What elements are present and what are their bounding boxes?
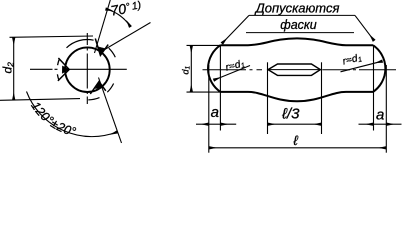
note underline 1 [249, 14, 355, 16]
hexagon flats in middle [268, 64, 320, 75]
120 deg dimension arc [27, 92, 118, 137]
d2 extension line bottom [0, 99, 80, 101]
centerline vertical [86, 33, 88, 104]
svg-text:a: a [211, 104, 219, 121]
svg-text:Допускаются: Допускаются [254, 1, 340, 16]
extension line left corner [219, 46, 221, 131]
svg-text:120°±20°: 120°±20° [28, 99, 77, 139]
part outline bottom edge [220, 92, 373, 101]
70 deg dimension arc [106, 9, 131, 27]
dim l/3 [268, 123, 322, 125]
dim a right: outside arrows [359, 123, 374, 125]
note underline 2 [246, 32, 354, 34]
svg-text:фаски: фаски [280, 18, 317, 32]
label 120deg±20deg on curve [30, 104, 127, 138]
svg-text:70°1): 70°1) [109, 0, 142, 19]
dim a left: outside arrows [196, 123, 209, 125]
dim a right: inner segment [373, 123, 386, 125]
d1 dimension line [190, 45, 192, 92]
svg-text:d2: d2 [0, 62, 15, 74]
d1 extension top [187, 44, 221, 46]
extension line right corner [373, 46, 375, 131]
extension line left tip [208, 65, 210, 153]
centerline horizontal [203, 69, 397, 71]
note leader right [355, 15, 374, 40]
extension line hexagon left [267, 62, 269, 134]
extension line right tip [385, 65, 387, 153]
svg-text:r≈d1: r≈d1 [342, 52, 364, 68]
svg-text:a: a [376, 107, 384, 124]
d2 extension line top [10, 36, 94, 37]
note leader left [222, 15, 249, 43]
d2 dimension line [13, 37, 15, 100]
svg-text:ℓ: ℓ [293, 133, 298, 148]
dim a left: inner segment [209, 123, 221, 125]
svg-text:ℓ/3: ℓ/3 [281, 105, 300, 122]
notch left lip arcs [57, 59, 59, 80]
leader r=d1 right [341, 61, 383, 72]
notch bottom-right (V-groove) [90, 82, 106, 95]
circle (bar cross-section) [65, 47, 110, 92]
70 deg extension line 1 [95, 0, 111, 53]
notch bottom lip arcs [88, 84, 113, 100]
leader r=d1 left [214, 66, 251, 81]
120 deg extension line [99, 78, 122, 144]
part outline top edge [220, 38, 373, 45]
svg-text:d1: d1 [180, 65, 191, 74]
70 deg extension line 2 [103, 23, 151, 51]
notch left (V-groove) [58, 58, 69, 81]
notch top-right (V-groove) [95, 39, 108, 56]
hexagon middle line [268, 69, 320, 71]
centerline horizontal [30, 68, 127, 70]
part right end arc [373, 45, 385, 92]
dim l [209, 147, 386, 149]
d1 extension bottom [187, 91, 221, 93]
part left end arc [208, 45, 220, 92]
extension line hexagon right [321, 62, 323, 134]
notch top lip arcs [67, 40, 116, 58]
